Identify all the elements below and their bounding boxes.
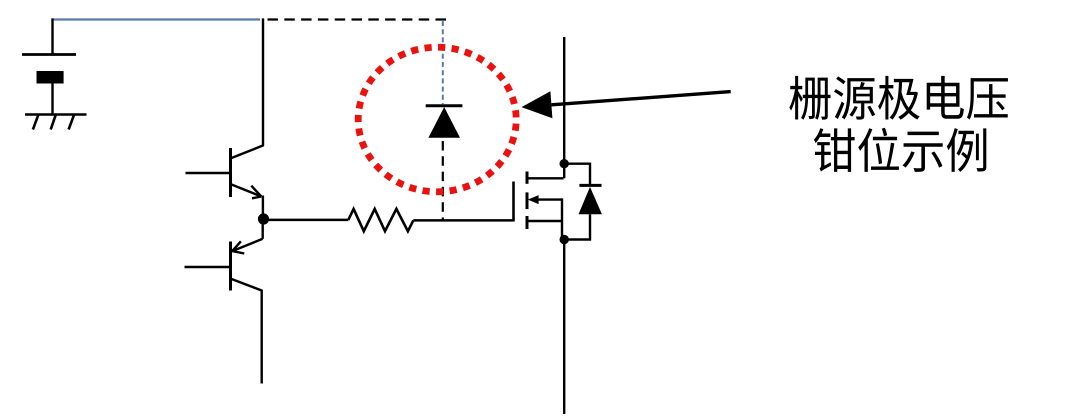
text line 1: 栅源极电压 — [789, 76, 830, 120]
wire black dashed (diode anode to gate wire) — [442, 141, 444, 220]
node drain dot — [560, 159, 569, 168]
transistor Q1 (upper NPN) — [186, 145, 264, 198]
wire source vertical — [563, 240, 565, 415]
ground — [25, 115, 87, 130]
wire body diode bottom — [564, 214, 590, 239]
wire left rail vertical — [262, 18, 264, 146]
wire body diode top — [564, 164, 590, 186]
diode D2 body diode — [579, 185, 602, 214]
wire Q1 emitter to node — [262, 196, 264, 220]
resistor R1 — [348, 209, 413, 231]
transistor Q2 (lower PNP) — [185, 219, 263, 291]
wire Q2 collector down — [261, 290, 263, 384]
wire node to resistor — [264, 219, 349, 222]
text line 2: 钳位示例 — [814, 128, 855, 172]
node source dot — [560, 235, 569, 244]
M1 body arrow — [528, 195, 539, 204]
wire blue supply rail — [53, 18, 261, 20]
red highlight circle — [358, 47, 516, 192]
node junction dot — [258, 213, 269, 224]
capacitor C1 bottom lead wire — [51, 84, 53, 115]
transistor M1 (N-MOSFET) — [514, 172, 564, 240]
wire drain vertical — [563, 37, 565, 178]
capacitor C1 — [22, 55, 76, 84]
wire blue dashed (to diode cathode) — [442, 21, 444, 104]
annotation arrow — [522, 91, 731, 118]
diode D1 clamp (in red circle) — [426, 106, 463, 138]
wire dashed top horizontal — [268, 18, 447, 20]
wire resistor to gate — [413, 219, 513, 222]
capacitor C1 top lead wire — [51, 18, 53, 54]
